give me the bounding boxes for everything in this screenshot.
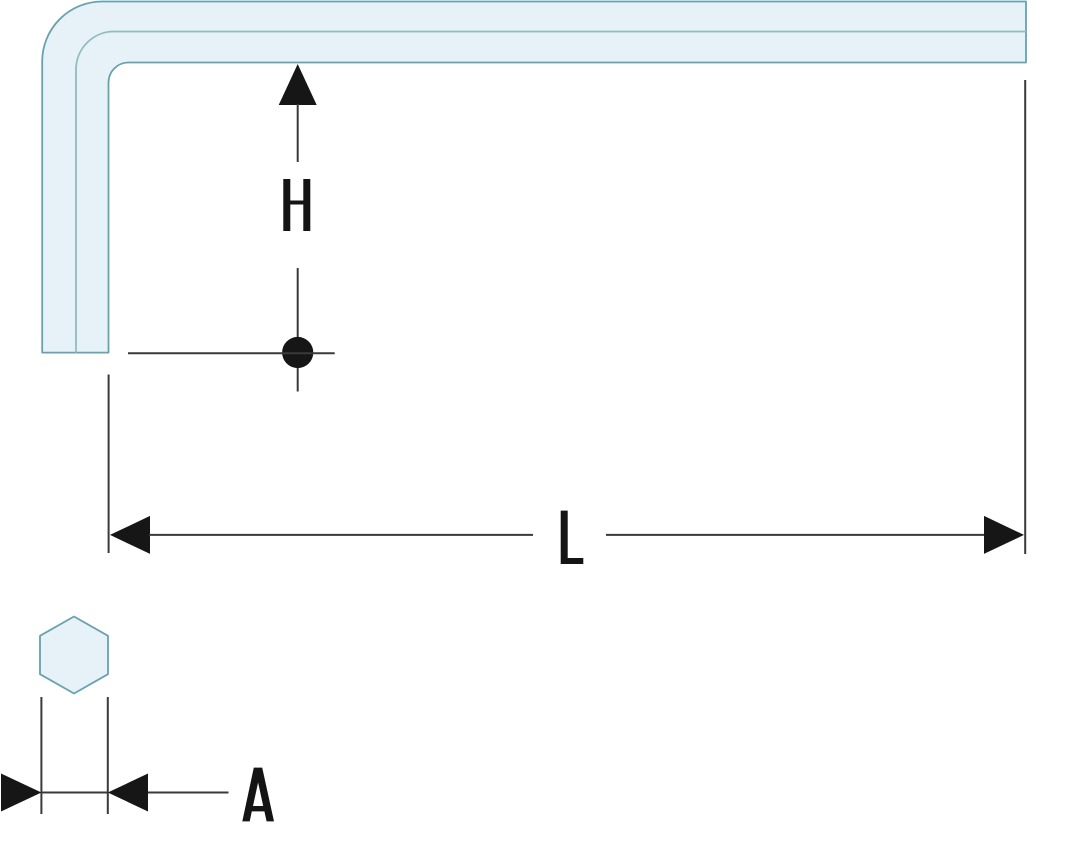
A extension line right <box>107 697 109 814</box>
L arrow left <box>110 516 150 554</box>
L dimension line right segment <box>606 534 985 536</box>
bend center dot <box>282 337 313 368</box>
hex key body (L-shaped arm) <box>42 2 1026 353</box>
bend center horizontal reference line <box>128 352 335 354</box>
A dimension line between extension lines <box>41 792 107 794</box>
hex key facet middle line <box>76 32 1026 353</box>
label A <box>242 768 274 822</box>
hex cross-section <box>40 617 108 694</box>
A arrow right (pointing left) <box>108 774 148 812</box>
A dimension tail line <box>148 792 229 794</box>
label L <box>561 511 584 564</box>
A extension line left <box>40 697 42 814</box>
dimension H line lower segment <box>297 268 299 392</box>
L dimension line left segment <box>149 534 533 536</box>
A arrow left (pointing right) <box>1 774 41 812</box>
L arrow right <box>984 516 1024 554</box>
label H <box>283 179 310 231</box>
dimension H line upper segment <box>297 104 299 162</box>
dimension H arrow (up) <box>279 64 317 105</box>
L extension line left <box>108 375 110 554</box>
L extension line right <box>1024 80 1026 554</box>
